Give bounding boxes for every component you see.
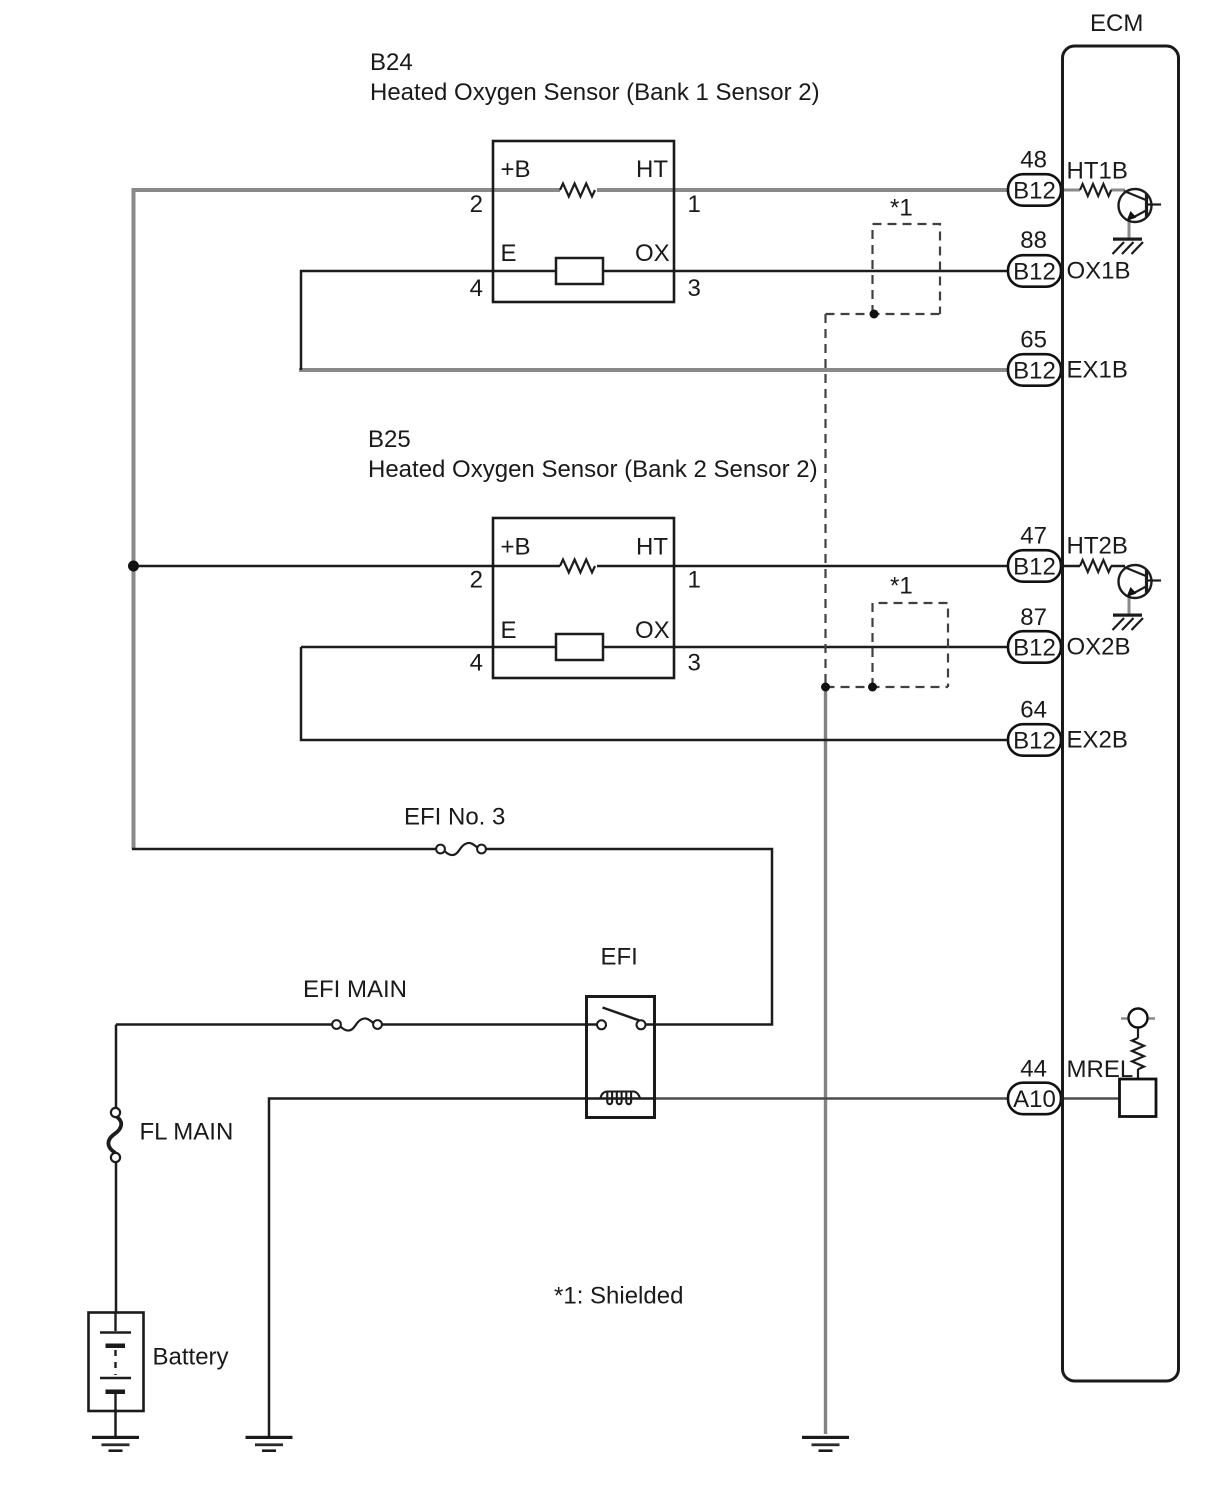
- svg-text:OX1B: OX1B: [1067, 258, 1131, 285]
- wire MREL battery terminal line gray: [1121, 1017, 1155, 1020]
- svg-text:B12: B12: [1013, 635, 1056, 662]
- sensing element B24: [556, 258, 603, 284]
- shield drain dashed vertical: [824, 314, 826, 687]
- ECM box: [1063, 46, 1179, 1381]
- svg-text:A10: A10: [1013, 1086, 1056, 1113]
- battery: [89, 1312, 144, 1411]
- svg-text:EFI: EFI: [601, 944, 638, 971]
- relay switch contacts: [597, 1020, 606, 1029]
- connector oval pin 47 B12: [1008, 550, 1061, 582]
- fusible link FL MAIN: [108, 1108, 121, 1162]
- svg-text:OX: OX: [635, 617, 670, 644]
- svg-text:+B: +B: [501, 534, 531, 561]
- wire transistor Q2 emitter to chassis ground gray: [1128, 594, 1131, 614]
- svg-text:48: 48: [1020, 147, 1047, 174]
- chassis ground Q2: [1113, 614, 1144, 631]
- transistor Q2 HT2B driver: [1119, 565, 1162, 598]
- connector oval pin 65 B12: [1008, 354, 1061, 386]
- relay switch blade: [603, 1008, 640, 1021]
- svg-text:Heated Oxygen Sensor (Bank 2 S: Heated Oxygen Sensor (Bank 2 Sensor 2): [368, 456, 818, 483]
- MREL battery terminal circle: [1129, 1009, 1148, 1028]
- svg-text:OX: OX: [635, 240, 670, 267]
- resistor heater B24: [560, 184, 595, 197]
- svg-text:47: 47: [1020, 523, 1047, 550]
- svg-text:OX2B: OX2B: [1067, 634, 1131, 661]
- svg-text:B12: B12: [1013, 358, 1056, 385]
- svg-text:87: 87: [1020, 604, 1047, 631]
- svg-text:88: 88: [1020, 227, 1047, 254]
- svg-text:3: 3: [688, 275, 701, 302]
- svg-text:*1: *1: [890, 573, 913, 600]
- wire OX1B black row + E loop vertical: [301, 271, 1012, 370]
- wire MREL from relay coil to pin 44 and to driver: [655, 1097, 1120, 1100]
- connector oval pin 48 B12: [1008, 174, 1061, 206]
- svg-text:EFI No. 3: EFI No. 3: [404, 804, 505, 831]
- relay coil: [601, 1092, 641, 1105]
- svg-text:B24: B24: [370, 49, 413, 76]
- wire MREL terminal to resistor: [1137, 1028, 1139, 1039]
- fuse EFI MAIN: [332, 1018, 382, 1030]
- junction node dot battery feed to HT2: [128, 561, 139, 572]
- resistor MREL pull-up vertical: [1132, 1038, 1144, 1069]
- wire transistor Q1 emitter to chassis ground gray: [1128, 218, 1131, 238]
- svg-text:*1: *1: [890, 195, 913, 222]
- svg-text:Battery: Battery: [153, 1344, 229, 1371]
- resistor heater B25: [560, 560, 595, 573]
- wire ECM HT1B stubs gray: [1060, 189, 1125, 192]
- svg-text:MREL: MREL: [1067, 1056, 1134, 1083]
- earth ground shield drain: [802, 1436, 849, 1452]
- svg-text:HT2B: HT2B: [1067, 533, 1128, 560]
- svg-text:B12: B12: [1013, 554, 1056, 581]
- connector oval pin 88 B12: [1008, 255, 1061, 287]
- svg-text:1: 1: [688, 191, 701, 218]
- connector oval pin 64 B12: [1008, 724, 1061, 756]
- svg-text:44: 44: [1020, 1056, 1047, 1083]
- wire battery negative to ground: [114, 1409, 117, 1436]
- resistor ECM HT1B: [1080, 184, 1111, 196]
- svg-text:Heated Oxygen Sensor (Bank 1 S: Heated Oxygen Sensor (Bank 1 Sensor 2): [370, 79, 820, 106]
- connector oval pin 44 A10: [1008, 1083, 1061, 1115]
- junction dot shield B25 left: [821, 683, 830, 692]
- wire OX2B row + EX2B loop to pin 64: [301, 647, 1012, 740]
- sensing element B25: [556, 634, 603, 660]
- wire shield drain solid gray to ground: [824, 687, 827, 1434]
- svg-text:E: E: [501, 240, 517, 267]
- svg-text:B12: B12: [1013, 259, 1056, 286]
- svg-text:E: E: [501, 617, 517, 644]
- wire ECM HT2B stubs black: [1060, 565, 1125, 568]
- wire relay switch stubs inside relay: [586, 1023, 655, 1026]
- svg-text:4: 4: [470, 650, 483, 677]
- svg-text:FL MAIN: FL MAIN: [140, 1119, 234, 1146]
- wire relay coil row: [586, 1097, 655, 1100]
- wire EX1B gray horizontal to pin 65: [299, 368, 1012, 372]
- wire resistor to MREL driver box: [1137, 1069, 1139, 1079]
- fuse EFI No.3: [436, 843, 486, 855]
- svg-text:EX1B: EX1B: [1067, 357, 1128, 384]
- svg-text:EX2B: EX2B: [1067, 727, 1128, 754]
- earth ground battery: [92, 1436, 139, 1452]
- svg-text:4: 4: [470, 275, 483, 302]
- wire relay coil to ground: [269, 1099, 586, 1437]
- svg-text:ECM: ECM: [1090, 10, 1143, 37]
- svg-text:1: 1: [688, 567, 701, 594]
- junction dot shield B24: [870, 310, 879, 319]
- svg-text:B12: B12: [1013, 728, 1056, 755]
- shield *1 dashed box around OX1B wire: [826, 224, 941, 314]
- chassis ground Q1: [1113, 238, 1144, 255]
- svg-text:2: 2: [470, 567, 483, 594]
- wire EFI No.3 feed from left vertical to relay switch: [132, 849, 772, 1025]
- connector oval pin 87 B12: [1008, 631, 1061, 663]
- svg-text:2: 2: [470, 191, 483, 218]
- wire EFI MAIN row: [116, 1023, 586, 1026]
- MREL driver box: [1120, 1079, 1157, 1117]
- svg-text:+B: +B: [501, 156, 531, 183]
- wire battery positive vertical through FL MAIN: [115, 1025, 118, 1314]
- svg-text:B12: B12: [1013, 178, 1056, 205]
- svg-text:64: 64: [1020, 697, 1047, 724]
- svg-text:HT: HT: [636, 156, 668, 183]
- svg-text:B25: B25: [368, 426, 411, 453]
- shield *1 dashed box around OX2B wire: [826, 603, 949, 687]
- sensor box B25: [493, 518, 674, 678]
- earth ground relay coil: [246, 1436, 293, 1452]
- sensor box B24: [493, 141, 674, 302]
- svg-text:*1: Shielded: *1: Shielded: [554, 1283, 683, 1310]
- svg-text:EFI MAIN: EFI MAIN: [303, 976, 407, 1003]
- svg-text:HT1B: HT1B: [1067, 158, 1128, 185]
- resistor ECM HT2B: [1080, 560, 1111, 572]
- junction dot shield B25 box: [868, 683, 877, 692]
- svg-text:3: 3: [688, 650, 701, 677]
- wire HT2B black row from node to pin 47: [134, 565, 1013, 568]
- svg-text:65: 65: [1020, 327, 1047, 354]
- svg-text:HT: HT: [636, 534, 668, 561]
- relay EFI box: [587, 997, 655, 1118]
- wire HT1B gray: battery feed left vertical + B24 +B/HT row: [134, 190, 1013, 849]
- transistor Q1 HT1B driver: [1119, 189, 1162, 222]
